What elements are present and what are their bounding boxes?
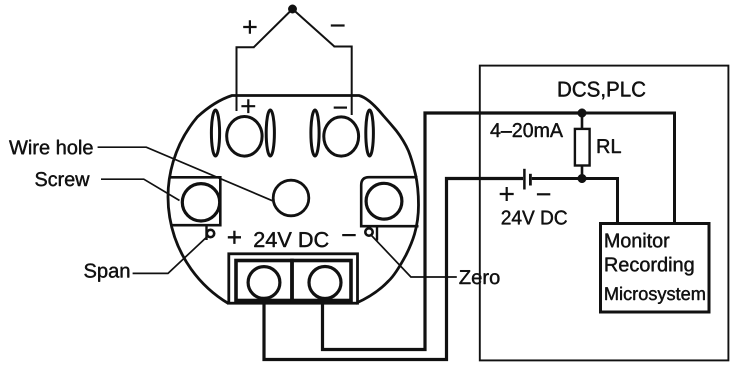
wire sensor left bracket <box>237 47 255 111</box>
pointer span <box>133 237 208 274</box>
screw circle right <box>366 183 402 219</box>
wire sensor left diagonal <box>254 9 293 47</box>
terminal circle - (top right) <box>324 117 359 156</box>
wire hole (central circle) <box>273 180 309 216</box>
pointer wire hole <box>98 147 273 201</box>
span slot tab <box>205 225 207 240</box>
terminal block outer <box>229 254 358 303</box>
oval slot 2 <box>266 110 274 156</box>
label - 24V supply row <box>342 234 356 236</box>
zero adjust hole <box>365 228 372 235</box>
label Span <box>84 264 129 282</box>
screw pocket right <box>361 177 418 226</box>
zero slot tab <box>376 226 378 240</box>
label + 24V supply row <box>228 231 241 244</box>
terminal block right square <box>292 261 351 301</box>
DCS,PLC enclosure box <box>480 66 729 361</box>
label RL <box>598 139 621 153</box>
span adjust hole <box>207 230 214 237</box>
wire + loop (left terminal to battery +) <box>264 179 523 360</box>
label + sensor top <box>243 20 256 33</box>
node top <box>578 109 587 118</box>
label Wire hole <box>9 140 93 155</box>
label Microsystem <box>605 287 704 304</box>
oval slot 3 <box>311 110 319 156</box>
wire sensor right diagonal <box>293 9 335 47</box>
terminal screw circle right (-) <box>309 267 341 299</box>
screw pocket left <box>170 177 221 225</box>
wire sensor right bracket <box>334 47 352 116</box>
node bottom <box>578 174 587 183</box>
pointer zero <box>372 236 457 278</box>
screw circle left <box>182 184 219 221</box>
sensor junction node <box>288 5 296 13</box>
battery B1 short plate <box>529 174 532 186</box>
label Monitor <box>606 233 670 248</box>
label Zero <box>459 270 499 284</box>
label + battery <box>500 187 514 201</box>
label - battery <box>537 193 550 195</box>
oval slot 4 <box>366 110 374 156</box>
label 4-20mA <box>490 123 563 137</box>
terminal circle + (top left) <box>227 117 262 157</box>
wire battery to node to monitor <box>532 179 618 224</box>
battery B1 long plate <box>523 169 526 190</box>
pointer screw <box>101 179 180 200</box>
label Screw <box>35 172 89 186</box>
label Recording <box>606 257 694 276</box>
resistor RL leads <box>581 113 584 179</box>
terminal screw circle left (+) <box>248 267 280 299</box>
wire top (node to monitor) <box>580 113 675 223</box>
label - sensor top <box>331 24 345 26</box>
monitor recording box <box>601 224 710 313</box>
label - terminal <box>334 106 347 108</box>
oval slot 1 <box>211 110 219 156</box>
transmitter housing outline <box>168 96 418 304</box>
wire - loop (right terminal to resistor top wire) <box>323 113 583 350</box>
resistor RL body <box>575 129 590 166</box>
value 24V DC (battery) <box>502 210 567 224</box>
label DCS,PLC <box>559 81 646 99</box>
value 24V DC (transmitter) <box>254 232 328 247</box>
label + terminal <box>241 99 255 113</box>
terminal block left square <box>236 261 292 301</box>
